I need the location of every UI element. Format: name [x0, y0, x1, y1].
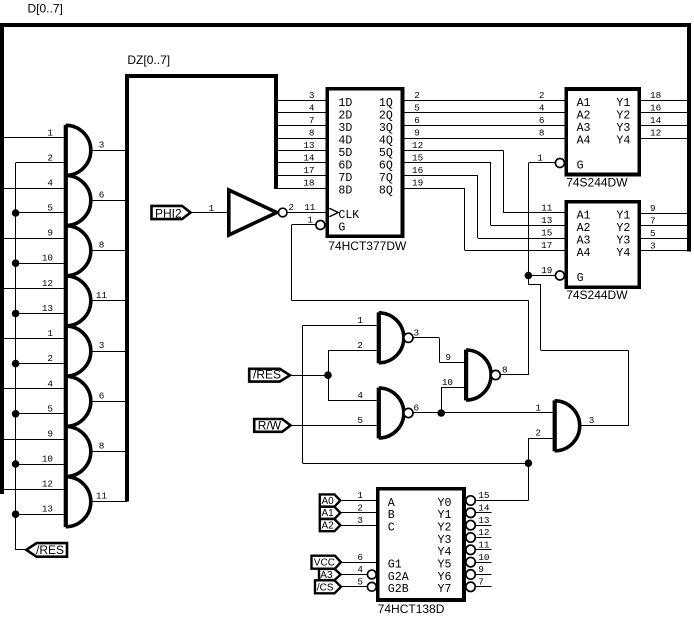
svg-text:74HCT138D: 74HCT138D	[378, 602, 445, 616]
svg-text:DZ[0..7]: DZ[0..7]	[127, 53, 170, 67]
svg-text:74S244DW: 74S244DW	[566, 175, 628, 189]
svg-text:6: 6	[99, 390, 105, 401]
svg-text:1: 1	[209, 203, 215, 214]
svg-text:4: 4	[309, 103, 315, 114]
svg-text:A4: A4	[577, 134, 591, 147]
svg-text:9: 9	[650, 203, 656, 214]
svg-text:5D: 5D	[338, 147, 352, 160]
svg-text:2: 2	[288, 202, 294, 213]
svg-text:11: 11	[478, 540, 490, 551]
svg-text:A1: A1	[577, 97, 591, 110]
svg-text:9: 9	[445, 352, 451, 363]
svg-text:8D: 8D	[338, 184, 352, 197]
svg-text:8Q: 8Q	[379, 184, 393, 197]
svg-text:B: B	[388, 509, 395, 522]
svg-text:Y1: Y1	[616, 210, 630, 223]
svg-text:1D: 1D	[338, 97, 352, 110]
svg-text:16: 16	[650, 103, 661, 114]
svg-text:2: 2	[357, 340, 363, 351]
svg-text:4: 4	[47, 378, 53, 389]
svg-text:G2B: G2B	[388, 583, 409, 596]
svg-text:Y4: Y4	[438, 546, 452, 559]
svg-text:/RES: /RES	[253, 368, 281, 382]
svg-text:1: 1	[307, 214, 313, 225]
svg-text:A2: A2	[322, 520, 335, 531]
svg-text:15: 15	[478, 490, 489, 501]
svg-text:6: 6	[414, 115, 420, 126]
svg-text:5: 5	[47, 203, 53, 214]
svg-text:8: 8	[502, 365, 508, 376]
svg-text:8: 8	[539, 128, 545, 139]
svg-text:9: 9	[414, 128, 420, 139]
svg-text:8: 8	[309, 128, 315, 139]
svg-text:D[0..7]: D[0..7]	[28, 1, 63, 15]
svg-text:17: 17	[541, 240, 552, 251]
svg-text:10: 10	[42, 454, 53, 465]
svg-text:Y6: Y6	[438, 571, 452, 584]
svg-text:Y4: Y4	[616, 247, 630, 260]
svg-text:G: G	[577, 159, 584, 172]
svg-text:3: 3	[414, 327, 420, 338]
svg-text:G1: G1	[388, 559, 402, 572]
svg-text:7: 7	[650, 215, 656, 226]
svg-text:11: 11	[96, 491, 108, 502]
svg-text:A3: A3	[577, 122, 591, 135]
svg-text:9: 9	[47, 228, 53, 239]
svg-text:13: 13	[478, 515, 489, 526]
svg-text:3: 3	[650, 240, 656, 251]
svg-text:Y0: Y0	[438, 497, 452, 510]
svg-text:6: 6	[539, 115, 545, 126]
svg-text:19: 19	[541, 265, 552, 276]
svg-text:14: 14	[303, 153, 315, 164]
svg-text:5: 5	[357, 577, 363, 588]
svg-text:A: A	[388, 497, 395, 510]
svg-text:A2: A2	[577, 222, 591, 235]
svg-text:6: 6	[99, 190, 105, 201]
svg-text:12: 12	[478, 527, 489, 538]
svg-text:2Q: 2Q	[379, 109, 393, 122]
svg-text:6D: 6D	[338, 159, 352, 172]
svg-text:A1: A1	[322, 508, 335, 519]
svg-text:G: G	[577, 272, 584, 285]
svg-text:1: 1	[47, 127, 53, 138]
svg-text:/CS: /CS	[317, 582, 334, 593]
svg-text:3D: 3D	[338, 122, 352, 135]
svg-text:Y2: Y2	[438, 522, 452, 535]
svg-text:A3: A3	[577, 235, 591, 248]
svg-text:A0: A0	[322, 496, 335, 507]
svg-text:4: 4	[47, 178, 53, 189]
svg-text:11: 11	[304, 202, 316, 213]
svg-text:Y3: Y3	[616, 235, 630, 248]
svg-text:8: 8	[99, 441, 105, 452]
svg-text:R/W: R/W	[258, 418, 282, 432]
svg-text:9: 9	[47, 429, 53, 440]
svg-text:5Q: 5Q	[379, 147, 393, 160]
svg-text:13: 13	[42, 504, 53, 515]
svg-text:10: 10	[478, 552, 489, 563]
svg-text:3: 3	[99, 139, 105, 150]
svg-text:11: 11	[541, 203, 553, 214]
svg-text:6Q: 6Q	[379, 159, 393, 172]
svg-text:7: 7	[478, 577, 484, 588]
svg-text:Y2: Y2	[616, 109, 630, 122]
svg-text:5: 5	[357, 415, 363, 426]
svg-text:Y3: Y3	[438, 534, 452, 547]
svg-text:3: 3	[99, 340, 105, 351]
svg-text:2D: 2D	[338, 109, 352, 122]
svg-text:G: G	[338, 221, 345, 234]
svg-text:5: 5	[414, 103, 420, 114]
svg-text:A1: A1	[577, 210, 591, 223]
svg-text:9: 9	[478, 564, 484, 575]
svg-text:10: 10	[42, 253, 53, 264]
svg-text:5: 5	[650, 228, 656, 239]
svg-text:15: 15	[412, 153, 423, 164]
svg-text:6: 6	[414, 403, 420, 414]
svg-text:13: 13	[541, 215, 552, 226]
svg-text:3: 3	[589, 415, 595, 426]
svg-text:3Q: 3Q	[379, 122, 393, 135]
svg-text:2: 2	[414, 90, 420, 101]
svg-text:18: 18	[303, 178, 314, 189]
svg-text:2: 2	[357, 503, 363, 514]
svg-text:12: 12	[42, 278, 53, 289]
svg-text:A2: A2	[577, 109, 591, 122]
svg-text:Y1: Y1	[438, 509, 452, 522]
svg-text:VCC: VCC	[314, 558, 335, 569]
svg-text:Y5: Y5	[438, 559, 452, 572]
svg-text:13: 13	[42, 303, 53, 314]
svg-text:CLK: CLK	[338, 209, 359, 222]
svg-text:4Q: 4Q	[379, 134, 393, 147]
svg-text:6: 6	[357, 552, 363, 563]
svg-text:74HCT377DW: 74HCT377DW	[328, 239, 407, 253]
svg-text:10: 10	[442, 377, 453, 388]
svg-text:1: 1	[357, 490, 363, 501]
svg-text:3: 3	[309, 90, 315, 101]
svg-text:Y7: Y7	[438, 583, 452, 596]
svg-text:C: C	[388, 522, 395, 535]
svg-text:7: 7	[309, 115, 315, 126]
svg-text:13: 13	[303, 140, 314, 151]
svg-text:12: 12	[412, 140, 423, 151]
svg-text:7D: 7D	[338, 172, 352, 185]
svg-text:15: 15	[541, 228, 552, 239]
svg-text:G2A: G2A	[388, 571, 409, 584]
svg-text:19: 19	[412, 178, 423, 189]
svg-text:12: 12	[650, 128, 661, 139]
svg-text:11: 11	[96, 290, 108, 301]
svg-text:Y1: Y1	[616, 97, 630, 110]
svg-text:/RES: /RES	[36, 543, 64, 557]
svg-text:1: 1	[47, 328, 53, 339]
svg-text:2: 2	[535, 428, 541, 439]
svg-text:2: 2	[47, 152, 53, 163]
svg-text:7Q: 7Q	[379, 172, 393, 185]
svg-text:74S244DW: 74S244DW	[566, 288, 628, 302]
svg-text:18: 18	[650, 90, 661, 101]
svg-text:PHI2: PHI2	[155, 206, 182, 220]
svg-text:1: 1	[535, 403, 541, 414]
svg-text:1: 1	[537, 153, 543, 164]
svg-text:Y4: Y4	[616, 134, 630, 147]
svg-text:4: 4	[357, 564, 363, 575]
svg-text:4: 4	[357, 390, 363, 401]
svg-text:2: 2	[539, 90, 545, 101]
svg-text:12: 12	[42, 479, 53, 490]
svg-text:Y3: Y3	[616, 122, 630, 135]
svg-text:17: 17	[303, 165, 314, 176]
svg-text:14: 14	[478, 503, 490, 514]
svg-text:8: 8	[99, 240, 105, 251]
svg-text:3: 3	[357, 515, 363, 526]
svg-text:16: 16	[412, 165, 423, 176]
svg-text:A4: A4	[577, 247, 591, 260]
svg-text:1Q: 1Q	[379, 97, 393, 110]
svg-text:5: 5	[47, 403, 53, 414]
svg-text:14: 14	[650, 115, 662, 126]
svg-text:2: 2	[47, 353, 53, 364]
svg-text:4: 4	[539, 103, 545, 114]
svg-text:Y2: Y2	[616, 222, 630, 235]
svg-text:4D: 4D	[338, 134, 352, 147]
svg-text:1: 1	[357, 315, 363, 326]
